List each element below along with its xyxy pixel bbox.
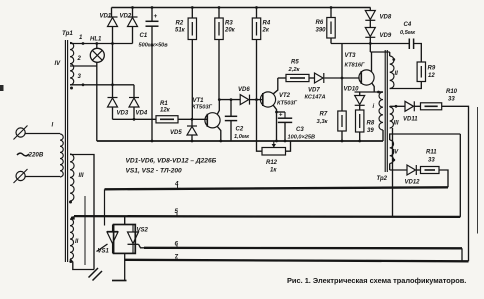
wire 6 <box>144 247 462 250</box>
diode VD6 <box>240 95 249 105</box>
resistor R8 <box>356 110 364 132</box>
svg-text:VD8: VD8 <box>380 15 392 21</box>
wire VD5 to rail <box>191 135 193 141</box>
AC source terminal bottom <box>14 169 28 183</box>
winding IV dot <box>392 159 395 162</box>
wire winding III to VD11 <box>390 105 405 107</box>
svg-text:390: 390 <box>316 28 327 34</box>
capacitor C1 <box>146 13 159 26</box>
svg-text:VD6: VD6 <box>238 87 250 93</box>
resistor R9 <box>417 62 425 82</box>
svg-text:R5: R5 <box>291 60 299 66</box>
junction R8 rail <box>358 140 361 143</box>
svg-text:2к: 2к <box>262 28 270 34</box>
wire AC bottom to winding I <box>25 176 60 178</box>
svg-text:VD2: VD2 <box>120 14 132 20</box>
wire C3 bottom <box>284 122 286 141</box>
diode VD2 <box>128 17 138 27</box>
diode VD3 <box>108 98 118 108</box>
wire VD1 column <box>112 27 114 98</box>
junction R7 rail <box>341 140 344 143</box>
wire minus rail <box>97 140 383 142</box>
junction VD4 anode <box>133 118 136 121</box>
svg-text:VD1-VD6, VD8-VD12 – Д226Б: VD1-VD6, VD8-VD12 – Д226Б <box>126 158 217 165</box>
wire winding IV bottom <box>70 84 134 86</box>
junction R4 base <box>255 98 258 101</box>
wire 5 <box>74 215 460 218</box>
transformer T2 winding II <box>390 52 394 89</box>
wire VT2 collector up <box>273 78 278 94</box>
junction bottom a <box>82 83 85 86</box>
svg-text:VD9: VD9 <box>380 33 392 39</box>
wire T2 primary bottom <box>382 130 384 141</box>
junction rail C1 <box>151 6 154 9</box>
wire winding III return <box>392 128 394 217</box>
transistor VT2 <box>260 92 275 107</box>
transformer T1 winding III <box>70 154 74 201</box>
wire R5 to VD7 <box>309 77 315 79</box>
svg-text:VD4: VD4 <box>136 111 148 117</box>
svg-text:R10: R10 <box>446 89 458 95</box>
thyristor box <box>114 225 136 254</box>
svg-text:IV: IV <box>393 150 400 156</box>
wire 6 right drop <box>461 248 463 261</box>
junction VT1 emitter rail <box>219 140 222 143</box>
svg-text:500мк×50в: 500мк×50в <box>139 43 169 49</box>
wire VT1 collector <box>217 100 219 115</box>
transformer T2 winding IV <box>390 140 394 164</box>
wire C1 top stub <box>151 8 153 22</box>
wire R9 bottom loop <box>390 82 422 89</box>
wire right edge faint <box>477 107 479 234</box>
svg-text:6: 6 <box>175 240 179 247</box>
wire collector to R5 <box>278 77 286 79</box>
wire mid rail 43 <box>331 43 409 45</box>
svg-text:HL1: HL1 <box>90 37 102 43</box>
wire winding II top stub <box>70 216 74 219</box>
transformer T2 core <box>385 50 387 172</box>
wire C2 bottom <box>230 121 232 141</box>
wire top plus rail <box>112 7 371 9</box>
resistor R5 <box>286 74 309 81</box>
junction rail R4 <box>255 6 258 9</box>
svg-text:2: 2 <box>77 56 82 62</box>
junction rail R3 <box>218 6 221 9</box>
wire lamp bottom down to minus rail <box>96 62 98 141</box>
svg-text:VS1, VS2 - ТЛ-200: VS1, VS2 - ТЛ-200 <box>126 168 183 175</box>
svg-text:4: 4 <box>174 181 179 188</box>
transformer T1 primary winding I <box>60 134 63 177</box>
wire C4 to R9 <box>414 44 422 63</box>
svg-text:C4: C4 <box>404 22 412 28</box>
capacitor C2 <box>225 116 237 120</box>
wire VD10 to R8 <box>359 105 361 110</box>
svg-text:20к: 20к <box>224 28 236 34</box>
label ~220V <box>17 152 44 159</box>
label wire 4 <box>174 181 179 189</box>
wire VD5 stub <box>191 119 193 125</box>
svg-text:IV: IV <box>55 61 62 67</box>
junction tap1 a <box>82 42 85 45</box>
svg-text:III: III <box>394 121 399 127</box>
svg-text:33: 33 <box>448 97 455 103</box>
wire T2 winding IV top link <box>390 134 461 140</box>
label wire 5 <box>175 208 179 217</box>
junction VT2 emitter rail <box>275 140 278 143</box>
wire VD4 anode down <box>133 107 135 119</box>
resistor R11 <box>421 167 440 174</box>
svg-text:VD5: VD5 <box>170 130 182 136</box>
diode VD11 <box>405 101 414 111</box>
wire 4 <box>105 187 449 189</box>
wire VD8 VD9 <box>369 20 371 27</box>
svg-text:КТ816Г: КТ816Г <box>345 63 366 69</box>
svg-text:R9: R9 <box>428 66 436 72</box>
wire 7 <box>125 260 469 262</box>
wire VD3 anode down <box>112 107 114 119</box>
wire winding IV to VD12 <box>389 164 391 171</box>
wire winding III top link <box>70 155 94 270</box>
thyristor VS1 gate <box>97 244 108 252</box>
wire R6 bottom to rail43 <box>330 38 332 44</box>
junction bottom VD1 column <box>111 83 114 86</box>
wire collector node to VD6 <box>219 99 240 101</box>
svg-text:III: III <box>79 173 84 179</box>
diode VD5 <box>187 126 197 135</box>
svg-text:12к: 12к <box>160 108 171 114</box>
svg-text:C2: C2 <box>236 127 244 133</box>
svg-text:Тр2: Тр2 <box>377 176 388 182</box>
svg-text:33: 33 <box>428 158 435 164</box>
junction VD9 rail43 <box>369 42 372 45</box>
wire VD2 bottom <box>132 27 134 44</box>
transistor VT3 <box>359 70 374 85</box>
svg-text:100,0×25В: 100,0×25В <box>288 135 316 141</box>
svg-text:VD11: VD11 <box>403 117 418 123</box>
capacitor C3 <box>278 112 292 122</box>
diode VD9 <box>365 28 375 38</box>
lamp HL1 <box>90 48 104 62</box>
junction C1 rail <box>151 140 154 143</box>
svg-text:Тр1: Тр1 <box>62 30 73 37</box>
svg-text:0,5мк: 0,5мк <box>400 30 416 36</box>
junction VD5 <box>191 118 194 121</box>
svg-text:R3: R3 <box>225 21 233 27</box>
svg-text:51к: 51к <box>175 28 186 34</box>
svg-text:39: 39 <box>367 128 374 134</box>
wire VT3 collector <box>371 52 373 72</box>
resistor R6 <box>327 8 335 39</box>
svg-text:R2: R2 <box>176 21 184 27</box>
wire tap1 <box>70 43 133 45</box>
svg-text:R8: R8 <box>367 121 375 127</box>
ground bar <box>112 280 127 282</box>
scan edge mark <box>0 85 4 91</box>
wire VD2 stub top <box>132 8 134 18</box>
wire VD7 to VT3 base <box>325 77 360 79</box>
wire right branch down <box>459 134 461 217</box>
svg-text:II: II <box>75 239 79 245</box>
junction tap1 VD1 <box>111 42 114 45</box>
wire AC top to winding I <box>25 133 60 135</box>
wire R7 bottom <box>341 131 343 141</box>
diode VD12 <box>407 165 416 175</box>
wire R11 out to wire4 <box>439 170 448 187</box>
winding II dot <box>69 260 72 263</box>
wire VD10 stub <box>359 92 361 96</box>
diode VD10 <box>355 96 365 106</box>
wire tap2 to lamp <box>70 65 97 67</box>
resistor R4 <box>252 8 260 40</box>
svg-text:3,3к: 3,3к <box>317 119 329 125</box>
diode VD7 <box>315 73 324 83</box>
resistor R1 <box>156 116 178 123</box>
resistor R3 <box>215 8 223 40</box>
wire VT2 emitter down <box>273 105 276 141</box>
svg-text:КС147А: КС147А <box>305 95 326 101</box>
winding III dot <box>69 201 72 204</box>
wire VD12 to R11 <box>417 169 421 171</box>
svg-text:II: II <box>395 71 399 77</box>
svg-text:VD1: VD1 <box>100 14 112 20</box>
svg-text:VT3: VT3 <box>345 53 357 59</box>
wire VD11 to R10 <box>415 105 421 107</box>
junction VD5 rail <box>191 140 194 143</box>
junction emitter winding <box>377 91 380 94</box>
wire R3 column down <box>218 40 220 100</box>
junction rail R2 <box>191 6 194 9</box>
wire box top to wire5 <box>124 217 126 225</box>
junction tap1 HL1 <box>95 42 98 45</box>
wire R8 bottom <box>359 132 361 141</box>
wire R4 column down <box>256 40 258 142</box>
wire lamp top <box>96 44 98 49</box>
wire stub x85 <box>84 196 86 265</box>
wire 4 left drop <box>104 189 106 225</box>
svg-text:2,2к: 2,2к <box>288 67 301 73</box>
junction rail R6 <box>330 6 333 9</box>
winding II dot <box>392 58 395 61</box>
resistor R12 trimmer <box>257 141 291 155</box>
wire VD1 stub <box>111 8 113 18</box>
wire R7 top column <box>341 44 343 112</box>
svg-text:12: 12 <box>428 73 435 79</box>
junction II top <box>71 216 74 219</box>
wire winding II bottom <box>70 259 94 270</box>
junction C2 top <box>230 98 233 101</box>
diode VD1 <box>108 17 118 27</box>
junction rail VD2 <box>131 6 134 9</box>
svg-text:C3: C3 <box>296 127 304 133</box>
svg-text:VT2: VT2 <box>279 93 291 99</box>
svg-text:VD10: VD10 <box>344 87 360 93</box>
svg-text:1к: 1к <box>270 168 277 174</box>
AC source terminal top <box>14 126 28 140</box>
svg-text:VD3: VD3 <box>117 111 129 117</box>
transformer T2 winding I <box>379 92 383 130</box>
wire VT1 emitter <box>217 126 221 141</box>
transformer T1 winding IV <box>70 43 74 86</box>
svg-text:+: + <box>154 13 158 20</box>
capacitor C4 <box>409 39 413 50</box>
svg-text:C1: C1 <box>140 33 148 39</box>
wire VD9 bottom <box>369 37 371 52</box>
wire C1 bottom to rail <box>151 26 153 141</box>
svg-text:R12: R12 <box>266 160 278 166</box>
svg-text:R1: R1 <box>160 101 168 107</box>
wire VD8 stub <box>369 8 371 11</box>
resistor R7 <box>338 111 346 131</box>
svg-text:5: 5 <box>175 208 179 215</box>
svg-text:R4: R4 <box>263 21 271 27</box>
wire box bottom ground stem <box>124 253 126 280</box>
svg-text:R11: R11 <box>426 150 437 156</box>
svg-text:R7: R7 <box>320 112 328 118</box>
resistor R10 <box>421 103 442 110</box>
diode VD8 <box>365 11 375 21</box>
winding IV dot <box>70 87 73 90</box>
svg-text:Рис. 1. Электрическая схема тр: Рис. 1. Электрическая схема тралофикумат… <box>287 276 466 285</box>
thyristor VS1 <box>107 225 118 254</box>
svg-text:+: + <box>279 113 283 119</box>
transformer T1 core <box>65 40 67 262</box>
thyristor VS2 gate <box>139 244 145 248</box>
wire R2 column down <box>191 40 193 120</box>
wire to C3 <box>277 111 286 113</box>
svg-text:VS2: VS2 <box>137 228 149 234</box>
svg-text:VD7: VD7 <box>308 88 320 94</box>
wire C2 stub <box>230 100 232 117</box>
thyristor VS2 <box>128 225 139 254</box>
wire VT3 emitter <box>372 83 374 92</box>
svg-text:VD12: VD12 <box>405 180 421 186</box>
diode VD4 <box>129 98 139 108</box>
wire R1 to VT1 base <box>178 118 207 120</box>
wire collector rail52 <box>370 51 389 53</box>
junction VD11 wire <box>395 105 398 108</box>
chassis mark <box>89 268 103 281</box>
wire VD4 stub top <box>133 85 135 98</box>
wire T2 primary top <box>379 91 384 93</box>
label wire 7 <box>175 254 179 261</box>
svg-text:R6: R6 <box>316 20 324 26</box>
svg-text:VT1: VT1 <box>193 98 205 104</box>
junction C3 rail <box>284 140 287 143</box>
svg-text:220В: 220В <box>28 152 44 159</box>
wire emitter rail92 <box>355 91 383 93</box>
svg-text:1,0мк: 1,0мк <box>234 134 250 140</box>
junction R7 base feed <box>341 77 344 80</box>
wire R10 out <box>442 106 469 261</box>
transformer T2 winding III <box>390 106 394 128</box>
resistor R2 <box>188 8 196 40</box>
junction VT1 collector node <box>218 98 221 101</box>
transformer T1 winding II <box>70 219 74 259</box>
wire VD6 to VT2 base <box>250 99 263 101</box>
transistor VT1 <box>205 113 220 128</box>
junction emitter C3 <box>275 111 278 114</box>
svg-text:КТ503Г: КТ503Г <box>192 105 213 111</box>
label wire 6 <box>175 240 179 248</box>
wire bridge minus to R1 <box>113 118 157 120</box>
svg-text:КТ503Г: КТ503Г <box>277 101 298 107</box>
